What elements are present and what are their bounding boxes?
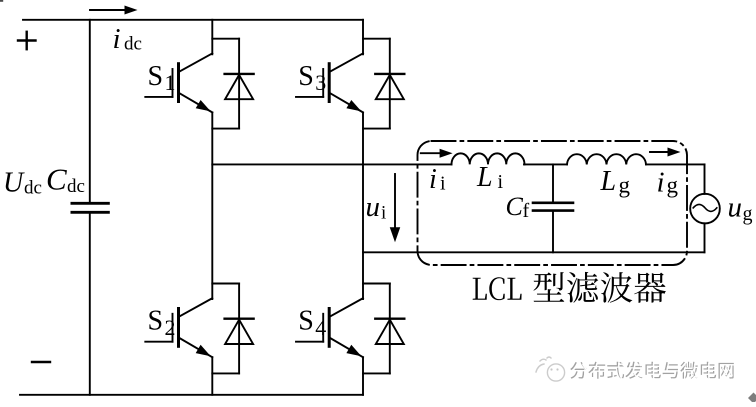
transistor Q2 S2 (IGBT) — [145, 298, 212, 357]
label: - polarity — [32, 361, 50, 363]
svg-text:dc: dc — [67, 176, 85, 197]
wire: left leg lower segment — [211, 357, 213, 395]
label ig — [657, 166, 679, 198]
label S3 — [298, 61, 326, 95]
svg-text:dc: dc — [24, 177, 42, 198]
diode D4 (antiparallel) — [363, 284, 404, 374]
svg-text:S: S — [148, 61, 164, 92]
watermark icon (light gray logo) — [536, 357, 565, 381]
wire: right leg middle segment — [362, 112, 364, 299]
wire: grid branch upper — [704, 164, 706, 194]
svg-text:dc: dc — [124, 34, 142, 55]
corner artifact mark — [0, 0, 3, 2]
arrow: idc current direction — [90, 6, 138, 15]
label ug — [728, 192, 753, 225]
svg-text:4: 4 — [315, 315, 326, 340]
ac source ug (grid) — [690, 194, 720, 224]
svg-text:u: u — [728, 192, 743, 224]
svg-text:3: 3 — [315, 70, 326, 95]
wire: left leg middle segment — [211, 112, 213, 299]
wire: Li to Lg segment — [524, 163, 567, 165]
watermark corner mark — [748, 393, 756, 404]
wire: positive DC bus (top) — [23, 19, 363, 21]
label: + polarity — [18, 32, 36, 49]
transistor Q4 S4 (IGBT) — [296, 298, 363, 357]
svg-text:S: S — [148, 306, 164, 337]
svg-text:u: u — [366, 191, 381, 223]
inductor Lg — [567, 154, 646, 164]
transistor Q1 S1 (IGBT) — [145, 53, 212, 112]
diode D1 (antiparallel) — [212, 39, 253, 129]
wire: inverter output top (node a) — [212, 163, 451, 165]
arrow: ii current — [421, 149, 453, 158]
svg-text:i: i — [657, 166, 665, 198]
svg-text:S: S — [298, 61, 314, 92]
svg-text:2: 2 — [165, 315, 176, 340]
watermark text (embossed gray) — [570, 362, 735, 380]
svg-text:C: C — [506, 192, 524, 221]
svg-text:f: f — [523, 200, 530, 222]
svg-text:i: i — [381, 203, 386, 224]
inductor Li — [452, 153, 525, 164]
svg-text:i: i — [498, 171, 504, 193]
label ui — [366, 191, 387, 224]
diode D3 (antiparallel) — [363, 39, 404, 129]
capacitor Cf — [533, 164, 573, 252]
svg-text:L: L — [600, 166, 617, 197]
label: LCL filter caption (LCL type filter) — [473, 272, 666, 303]
LCL filter boundary (dash-dot box) — [418, 141, 688, 265]
svg-text:S: S — [298, 306, 314, 337]
svg-text:U: U — [3, 167, 25, 198]
label S2 — [148, 306, 176, 340]
label ii — [429, 164, 446, 195]
wire: negative DC bus (bottom) — [20, 394, 363, 396]
svg-text:C: C — [46, 162, 67, 197]
svg-text:g: g — [743, 203, 753, 225]
svg-text:g: g — [667, 173, 679, 198]
capacitor Cdc — [72, 20, 109, 395]
label Udc — [3, 167, 42, 198]
svg-text:i: i — [113, 23, 121, 55]
wire: inverter output bottom (node b) — [363, 251, 705, 253]
label Lg — [600, 166, 631, 198]
arrow: ui voltage (down) — [390, 174, 401, 242]
svg-text:i: i — [440, 173, 446, 195]
diode D2 (antiparallel) — [212, 284, 253, 374]
label Li — [476, 162, 504, 193]
label S1 — [148, 61, 176, 95]
label idc — [113, 23, 142, 55]
svg-text:L: L — [476, 162, 493, 193]
wire: Lg to grid segment — [646, 163, 705, 165]
label Cf — [506, 192, 530, 222]
label Cdc — [46, 162, 85, 197]
wire: right leg lower segment — [362, 357, 364, 395]
wire: grid branch lower — [704, 223, 706, 252]
svg-text:1: 1 — [165, 70, 176, 95]
svg-text:i: i — [429, 164, 437, 195]
transistor Q3 S3 (IGBT) — [296, 53, 363, 112]
arrow: ig current — [650, 148, 681, 157]
wire: right leg upper (to S3) — [362, 20, 364, 55]
wire: left leg upper (to S1) — [211, 20, 213, 55]
label S4 — [298, 306, 326, 340]
svg-text:g: g — [619, 173, 631, 198]
